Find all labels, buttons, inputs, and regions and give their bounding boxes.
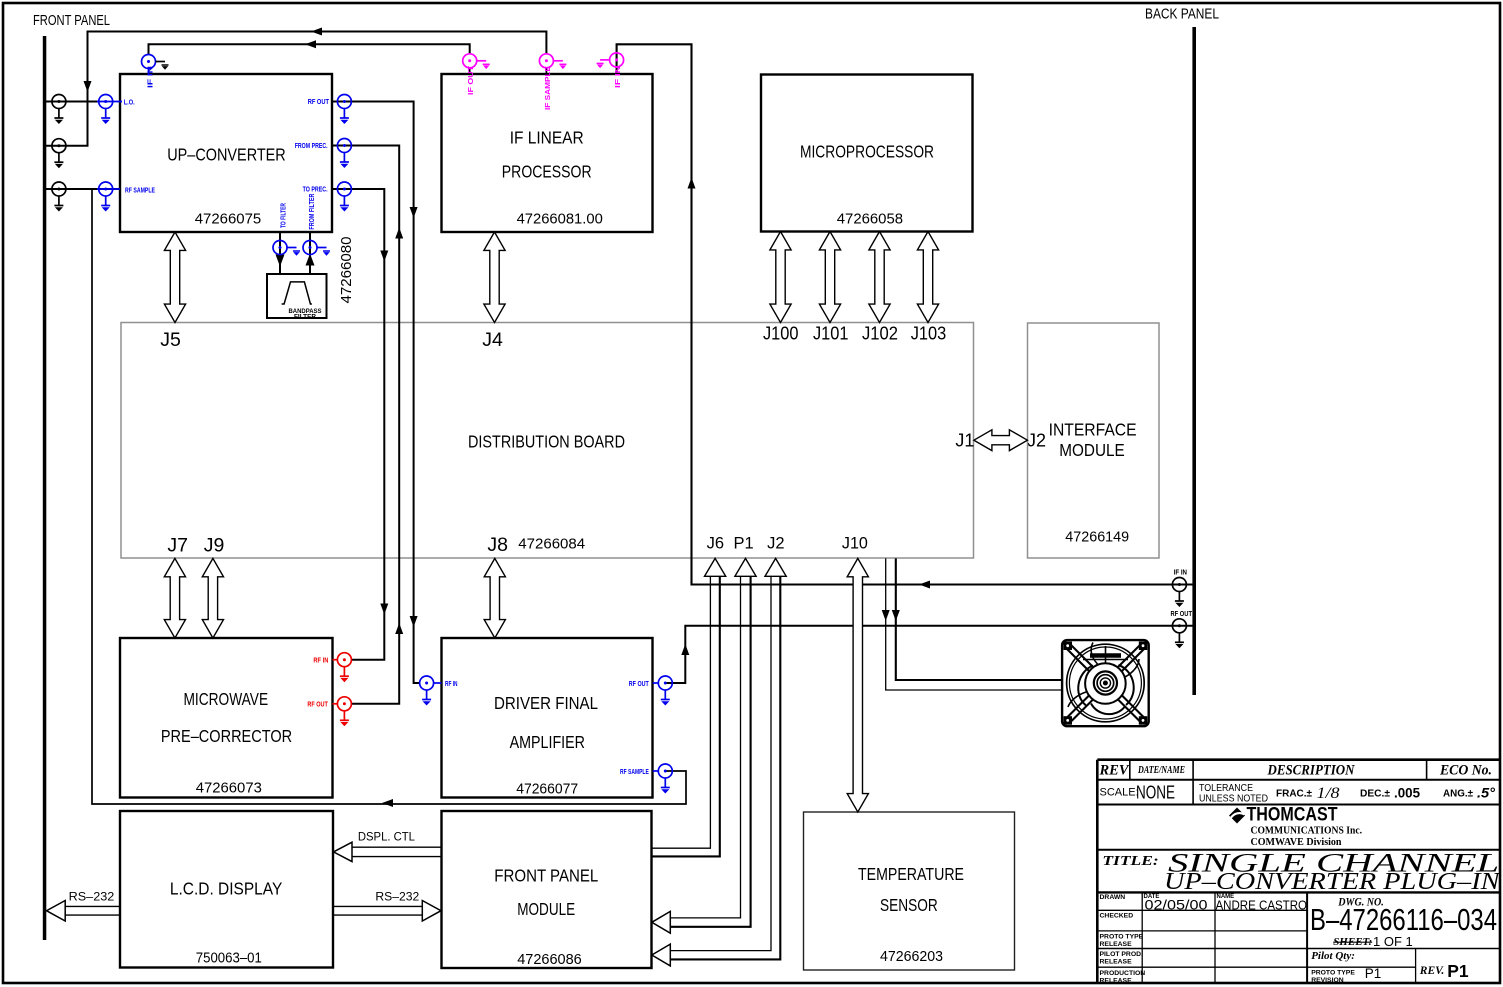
connector FROM FILTER <box>303 241 330 256</box>
connector L.O. <box>99 95 113 125</box>
arrow up on IF IN riser <box>688 178 696 189</box>
svg-text:RF SAMPLE: RF SAMPLE <box>620 767 649 776</box>
wire: IF SAMPLE to front panel jack 2 <box>45 32 547 146</box>
arrow down on fan line thin <box>882 610 890 621</box>
connector RF IN pre-corrector <box>337 653 351 683</box>
svg-text:J6: J6 <box>707 535 724 553</box>
svg-text:47266149: 47266149 <box>1065 530 1129 546</box>
svg-text:MODULE: MODULE <box>517 899 575 919</box>
svg-text:PRODUCTION: PRODUCTION <box>1100 970 1146 977</box>
svg-text:B–47266116–034: B–47266116–034 <box>1310 903 1497 937</box>
connector TO PREC <box>337 182 351 212</box>
svg-text:SENSOR: SENSOR <box>880 895 938 915</box>
wire: J6 pair to front panel module <box>652 576 710 848</box>
svg-text:RELEASE: RELEASE <box>1100 978 1133 985</box>
wire: TO PREC net <box>332 189 384 660</box>
arrow up from bandpass filter <box>306 254 315 266</box>
svg-text:FILTER: FILTER <box>294 314 316 321</box>
svg-text:PROTO TYPE: PROTO TYPE <box>1311 970 1355 977</box>
svg-text:RF OUT: RF OUT <box>307 700 328 709</box>
wire: IF OUT to up-converter IF IN <box>149 44 470 54</box>
connector IF IN up-converter <box>142 55 156 69</box>
interface module box <box>1028 323 1160 558</box>
svg-text:MICROWAVE: MICROWAVE <box>183 689 268 709</box>
svg-text:RF OUT: RF OUT <box>629 679 649 688</box>
arrow left on RF SAMPLE return line <box>382 799 393 807</box>
svg-text:RF SAMPLE: RF SAMPLE <box>125 185 155 194</box>
connector J101 double arrow <box>819 232 840 323</box>
arrow head P1 at board <box>735 558 756 576</box>
svg-text:IF SAMPLE: IF SAMPLE <box>543 66 552 110</box>
fan B1 <box>1062 640 1149 726</box>
svg-text:J2: J2 <box>767 535 784 553</box>
connector TO FILTER <box>273 241 300 256</box>
arrow down on RF OUT riser top <box>410 207 418 218</box>
svg-text:DSPL. CTL: DSPL. CTL <box>358 830 415 844</box>
arrow down on TO PREC riser bottom <box>380 604 388 615</box>
svg-text:.5°: .5° <box>1477 785 1495 801</box>
svg-text:MODULE: MODULE <box>1059 440 1124 460</box>
svg-text:TEMPERATURE: TEMPERATURE <box>858 864 964 884</box>
svg-text:47266058: 47266058 <box>837 212 903 228</box>
svg-text:TO PREC.: TO PREC. <box>303 184 328 193</box>
svg-text:FROM FILTER: FROM FILTER <box>307 193 316 229</box>
svg-text:J10: J10 <box>842 535 868 553</box>
connector J100 double arrow <box>770 232 791 323</box>
bandpass filter box <box>267 274 327 321</box>
svg-text:RS–232: RS–232 <box>69 890 115 904</box>
svg-text:FRAC.±: FRAC.± <box>1276 789 1313 800</box>
svg-text:47266073: 47266073 <box>196 781 262 797</box>
svg-text:P1: P1 <box>1365 966 1382 981</box>
svg-text:BACK PANEL: BACK PANEL <box>1145 6 1219 23</box>
svg-text:FRONT PANEL: FRONT PANEL <box>494 866 598 886</box>
arrow up on FROM PREC riser top <box>395 228 403 239</box>
connector J102 double arrow <box>869 232 890 323</box>
arrow down on RF OUT riser bottom <box>410 616 418 627</box>
svg-text:J102: J102 <box>862 324 898 344</box>
wire: up-converter RF OUT to driver RF IN <box>332 102 420 684</box>
jack front panel 3 <box>52 182 66 212</box>
temperature sensor box <box>804 812 1015 970</box>
connector J103 double arrow <box>917 232 938 323</box>
arrow head J2 at board <box>765 558 786 576</box>
IF linear processor box <box>442 74 653 232</box>
wire: J2 pair <box>670 576 771 950</box>
microwave pre-corrector box <box>120 638 333 798</box>
arrow up on driver RF OUT riser <box>681 644 689 655</box>
svg-text:.005: .005 <box>1394 785 1420 801</box>
connector IF OUT processor <box>463 54 490 69</box>
jack front panel 2 <box>52 139 66 169</box>
svg-text:PROTO TYPE: PROTO TYPE <box>1100 934 1144 941</box>
svg-text:PILOT PROD.: PILOT PROD. <box>1100 951 1144 958</box>
svg-text:REV.: REV. <box>1419 965 1444 977</box>
arrow down to bandpass filter <box>276 255 285 267</box>
connector IF IN back panel <box>1172 578 1186 608</box>
arrow head J6 at board <box>705 558 726 576</box>
svg-text:TO FILTER: TO FILTER <box>279 203 288 228</box>
svg-text:RF OUT: RF OUT <box>308 97 330 106</box>
svg-text:AMPLIFIER: AMPLIFIER <box>510 732 585 752</box>
svg-text:47266084: 47266084 <box>518 537 585 553</box>
wire: RF SAMPLE net <box>45 188 121 190</box>
arrow up on FROM PREC riser bottom <box>395 623 403 634</box>
svg-text:L.C.D. DISPLAY: L.C.D. DISPLAY <box>170 879 283 899</box>
svg-text:47266203: 47266203 <box>880 949 943 965</box>
arrow left on back panel IF IN line <box>919 581 930 589</box>
svg-text:J5: J5 <box>160 329 181 351</box>
wire: fan feed thick <box>896 558 1062 680</box>
svg-text:J100: J100 <box>763 324 799 344</box>
svg-text:J2: J2 <box>1027 431 1046 451</box>
svg-text:ECO No.: ECO No. <box>1439 763 1492 779</box>
arrow down on TO PREC riser top <box>380 251 388 262</box>
svg-text:02/05/00: 02/05/00 <box>1145 898 1208 913</box>
svg-text:750063–01: 750063–01 <box>196 951 262 967</box>
front panel module box <box>442 811 652 968</box>
svg-text:CHECKED: CHECKED <box>1100 913 1134 920</box>
connector RF OUT up-converter <box>337 95 351 125</box>
connector J10 double arrow <box>847 558 868 812</box>
svg-text:ANDRE CASTRO: ANDRE CASTRO <box>1216 898 1308 912</box>
up-converter U1 box <box>120 74 332 232</box>
svg-text:1 OF 1: 1 OF 1 <box>1373 934 1413 949</box>
arrow on IF SAMPLE line <box>311 28 322 36</box>
arrow down to L.O. net <box>84 81 92 92</box>
title block frame <box>1097 760 1501 983</box>
svg-text:47266077: 47266077 <box>516 782 578 798</box>
svg-text:UNLESS NOTED: UNLESS NOTED <box>1199 794 1268 805</box>
wire: back panel IF IN to IF linear processor <box>617 44 1194 584</box>
svg-text:J101: J101 <box>813 324 849 344</box>
svg-text:DATE/NAME: DATE/NAME <box>1137 765 1185 776</box>
connector RF SAMPLE driver <box>658 764 672 794</box>
wire: FROM PREC net <box>332 146 399 704</box>
svg-text:1/8: 1/8 <box>1317 785 1340 802</box>
connector RF OUT back panel <box>1172 619 1186 649</box>
arrow head P1 into front panel module <box>652 911 671 933</box>
svg-text:P1: P1 <box>1447 961 1469 981</box>
wire: FROM FILTER <box>309 232 311 274</box>
connector J5 double arrow <box>164 232 185 323</box>
connector J1-J2 double arrow <box>974 430 1028 451</box>
svg-text:J8: J8 <box>487 534 508 556</box>
connector IF SAMPLE processor <box>539 54 566 69</box>
svg-text:TITLE:: TITLE: <box>1102 853 1158 868</box>
wire: driver RF OUT to back panel <box>665 626 1194 683</box>
arrow down on fan line thick <box>892 610 900 621</box>
svg-text:RELEASE: RELEASE <box>1100 959 1133 966</box>
bus RS-232 right arrow <box>333 890 441 922</box>
connector J8 double arrow <box>484 558 505 638</box>
svg-text:IF OUT: IF OUT <box>466 66 475 95</box>
svg-text:SCALE:: SCALE: <box>1100 787 1139 799</box>
svg-text:J9: J9 <box>204 535 225 557</box>
svg-text:COMWAVE Division: COMWAVE Division <box>1251 836 1342 848</box>
svg-text:RF IN: RF IN <box>313 656 328 665</box>
svg-text:L.O.: L.O. <box>124 97 135 106</box>
svg-text:DEC.±: DEC.± <box>1360 789 1391 800</box>
connector RF OUT pre-corrector <box>337 697 351 727</box>
svg-text:IF IN: IF IN <box>1174 568 1187 577</box>
svg-text:RF IN: RF IN <box>445 679 458 688</box>
svg-text:47266075: 47266075 <box>195 212 262 228</box>
svg-text:J103: J103 <box>911 324 947 344</box>
wire: TO FILTER <box>279 232 281 274</box>
svg-text:ANG.±: ANG.± <box>1443 789 1473 800</box>
svg-text:FROM PREC.: FROM PREC. <box>295 141 328 150</box>
svg-text:UP–CONVERTER PLUG–IN: UP–CONVERTER PLUG–IN <box>1164 869 1502 895</box>
svg-text:COMMUNICATIONS Inc.: COMMUNICATIONS Inc. <box>1251 824 1363 836</box>
microprocessor box <box>761 75 973 232</box>
svg-text:P1: P1 <box>734 535 754 553</box>
svg-text:DISTRIBUTION BOARD: DISTRIBUTION BOARD <box>468 432 625 452</box>
wire: fan feed thin <box>886 558 1062 690</box>
svg-text:TOLERANCE: TOLERANCE <box>1199 783 1253 794</box>
svg-text:IF IN: IF IN <box>145 66 154 88</box>
svg-text:RF OUT: RF OUT <box>1171 609 1193 618</box>
connector RF OUT driver <box>658 676 672 706</box>
bus DSPL CTL arrow <box>334 830 442 862</box>
svg-text:RS–232: RS–232 <box>375 890 419 904</box>
svg-text:J7: J7 <box>167 535 188 557</box>
distribution board <box>121 323 974 559</box>
svg-text:J1: J1 <box>955 431 974 451</box>
svg-text:SHEET:: SHEET: <box>1333 936 1372 948</box>
connector RF SAMPLE up-converter <box>99 182 113 212</box>
connector J7 double arrow <box>164 558 185 638</box>
arrow on IF OUT line <box>305 40 316 48</box>
connector IF IN processor <box>597 53 624 68</box>
connector FROM PREC <box>337 139 351 169</box>
svg-text:PROCESSOR: PROCESSOR <box>502 162 592 182</box>
svg-text:PRE–CORRECTOR: PRE–CORRECTOR <box>161 726 292 746</box>
svg-text:DRIVER FINAL: DRIVER FINAL <box>494 693 598 713</box>
svg-text:REVISION: REVISION <box>1311 977 1344 984</box>
svg-text:DESCRIPTION: DESCRIPTION <box>1267 763 1355 779</box>
svg-text:INTERFACE: INTERFACE <box>1049 420 1137 440</box>
connector J9 double arrow <box>202 558 223 638</box>
jack front panel 1 <box>52 95 66 125</box>
wire: IF IN blue stub <box>148 68 150 74</box>
bus RS-232 left arrow <box>47 890 121 922</box>
THOMCAST logo <box>1229 805 1362 849</box>
svg-text:THOMCAST: THOMCAST <box>1247 805 1338 826</box>
svg-text:DRAWN: DRAWN <box>1100 894 1126 901</box>
svg-text:47266086: 47266086 <box>517 952 582 968</box>
connector J4 double arrow <box>484 232 505 323</box>
svg-text:RELEASE: RELEASE <box>1100 941 1133 948</box>
svg-text:NONE: NONE <box>1136 783 1175 803</box>
wire: front panel L.O. <box>45 101 100 103</box>
svg-text:Pilot Qty:: Pilot Qty: <box>1311 950 1355 962</box>
svg-text:REV: REV <box>1098 763 1129 779</box>
svg-text:IF IN: IF IN <box>613 66 622 88</box>
svg-text:J4: J4 <box>482 329 503 351</box>
svg-text:UP–CONVERTER: UP–CONVERTER <box>167 145 286 165</box>
arrow head J2 into front panel module <box>652 944 671 966</box>
svg-text:47266080: 47266080 <box>339 237 355 304</box>
wire: magenta connector stubs <box>470 68 547 74</box>
svg-text:FRONT PANEL: FRONT PANEL <box>33 12 110 29</box>
LCD display box <box>120 811 333 968</box>
driver final amplifier box <box>442 638 653 798</box>
wire: P1 pair <box>670 576 741 918</box>
svg-text:IF LINEAR: IF LINEAR <box>510 128 584 148</box>
svg-text:MICROPROCESSOR: MICROPROCESSOR <box>800 142 934 162</box>
connector RF IN driver <box>420 676 434 706</box>
svg-text:47266081.00: 47266081.00 <box>517 212 603 228</box>
